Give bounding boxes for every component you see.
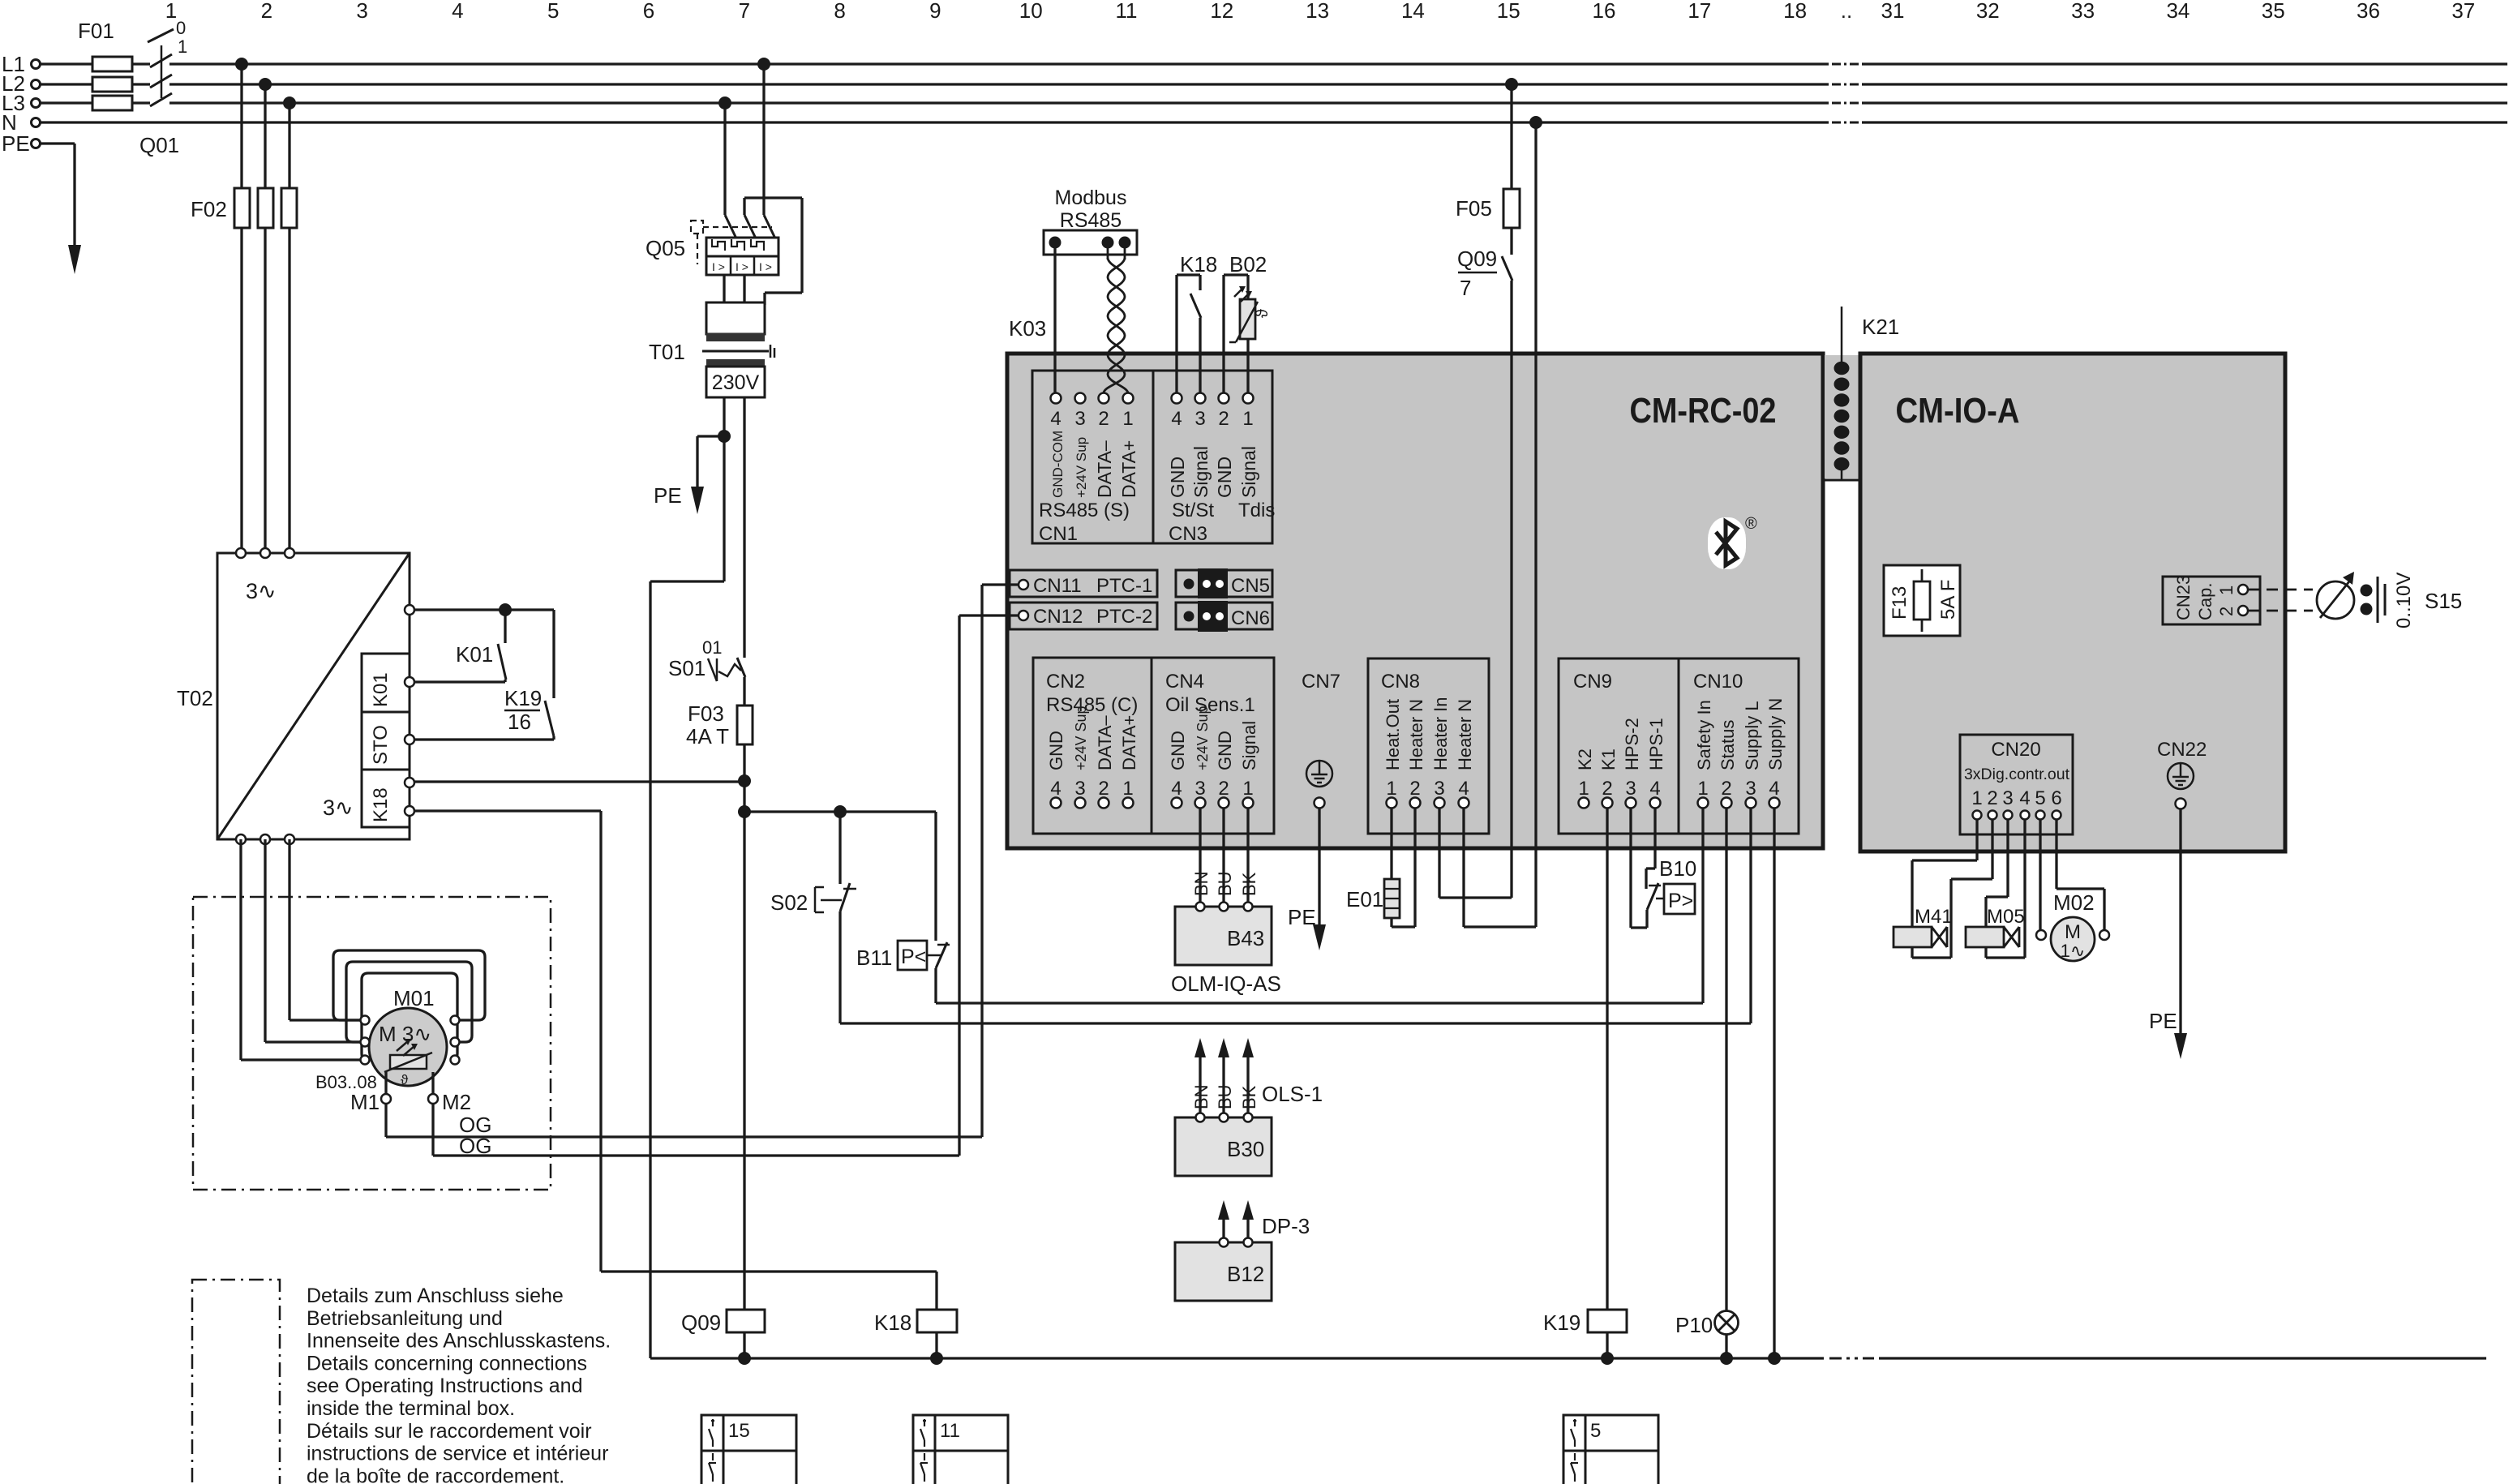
svg-text:K21: K21 xyxy=(1862,315,1899,339)
svg-text:5A F: 5A F xyxy=(1937,580,1959,620)
terminal M1 xyxy=(350,1072,391,1114)
terminal M2 xyxy=(428,1072,471,1114)
node PE tap at T01 xyxy=(718,430,731,443)
svg-text:OLS-1: OLS-1 xyxy=(1262,1082,1323,1106)
svg-text:BK: BK xyxy=(1239,1085,1259,1109)
svg-text:CN1: CN1 xyxy=(1039,523,1078,545)
node L3-F02 junction xyxy=(283,97,296,109)
svg-text:1: 1 xyxy=(2216,585,2237,595)
wire Q05 pole2 bypass loop xyxy=(744,198,802,305)
node control branch A xyxy=(738,805,751,818)
svg-text:B30: B30 xyxy=(1227,1137,1264,1161)
svg-text:Status: Status xyxy=(1718,720,1738,770)
svg-text:5: 5 xyxy=(1590,1420,1601,1442)
wire N to CN8.4 xyxy=(1464,122,1536,927)
svg-text:CN7: CN7 xyxy=(1302,671,1340,693)
svg-text:St/St: St/St xyxy=(1172,500,1214,521)
oil sensor B30 OLS-1 xyxy=(1175,1038,1323,1176)
svg-text:K19: K19 xyxy=(1543,1310,1580,1335)
L3 rail label and terminal xyxy=(2,91,41,115)
svg-text:P<: P< xyxy=(901,946,926,968)
svg-text:de la boîte de raccordement.: de la boîte de raccordement. xyxy=(307,1465,564,1484)
svg-text:PTC-2: PTC-2 xyxy=(1096,606,1152,628)
svg-text:4: 4 xyxy=(1458,778,1469,800)
wire L3 to Q05 pole1 xyxy=(723,103,726,215)
solenoid valve M05 xyxy=(1966,819,2025,958)
svg-text:+24V Sup: +24V Sup xyxy=(1074,437,1089,498)
svg-text:1: 1 xyxy=(1697,778,1708,800)
svg-text:Tdis: Tdis xyxy=(1238,500,1275,521)
svg-text:Détails sur le raccordement vo: Détails sur le raccordement voir xyxy=(307,1420,592,1443)
node SupplyN-bus xyxy=(1768,1352,1781,1365)
svg-text:Safety In: Safety In xyxy=(1694,700,1714,770)
svg-text:2: 2 xyxy=(1098,408,1109,430)
svg-text:K19: K19 xyxy=(504,686,542,710)
switch S02 xyxy=(770,812,856,1023)
svg-text:T01: T01 xyxy=(649,340,685,364)
svg-text:2: 2 xyxy=(1409,778,1420,800)
svg-text:7: 7 xyxy=(1460,276,1471,300)
sensor B02 Tdis (PTC) xyxy=(1224,252,1272,392)
svg-text:0..10V: 0..10V xyxy=(2393,573,2415,628)
svg-text:1: 1 xyxy=(178,36,187,57)
wire PE stub with arrow xyxy=(41,144,81,274)
connector CN2 pins xyxy=(1046,671,1139,808)
contact Q09/7 (breaker aux) xyxy=(1457,247,1512,898)
svg-text:CN2: CN2 xyxy=(1046,671,1085,693)
svg-text:32: 32 xyxy=(1976,0,2000,23)
frequency inverter T02 xyxy=(177,548,414,844)
svg-text:®: ® xyxy=(1745,515,1757,533)
svg-text:37: 37 xyxy=(2451,0,2475,23)
svg-text:4: 4 xyxy=(1769,778,1779,800)
svg-text:OLM-IQ-AS: OLM-IQ-AS xyxy=(1171,971,1281,996)
jumper CN5 xyxy=(1176,568,1272,598)
svg-text:M41: M41 xyxy=(1915,906,1953,928)
svg-text:7: 7 xyxy=(739,0,750,23)
fuse F01 (3-pole) xyxy=(78,19,132,110)
svg-text:S15: S15 xyxy=(2425,589,2462,613)
svg-text:12: 12 xyxy=(1210,0,1233,23)
node K18-bus xyxy=(930,1352,943,1365)
wire T02 to motor phases xyxy=(241,839,361,1060)
svg-text:M01: M01 xyxy=(393,986,435,1010)
svg-text:instructions de service et int: instructions de service et intérieur xyxy=(307,1443,608,1465)
svg-text:I >: I > xyxy=(736,260,748,273)
svg-text:4: 4 xyxy=(452,0,463,23)
svg-text:Cap.: Cap. xyxy=(2195,583,2215,620)
svg-text:DATA–: DATA– xyxy=(1094,440,1115,498)
motor protection breaker Q05 xyxy=(645,215,778,302)
switch Q01 main disconnect xyxy=(139,18,187,157)
connector CN20 3xDig.contr.out xyxy=(1960,735,2073,834)
svg-text:K01: K01 xyxy=(370,672,392,707)
svg-text:1: 1 xyxy=(1971,787,1982,809)
connector CN1 pins xyxy=(1039,393,1139,546)
svg-text:+24V Sup: +24V Sup xyxy=(1194,706,1211,770)
wire control feed down xyxy=(743,781,745,812)
svg-text:B10: B10 xyxy=(1659,856,1696,881)
thermistor B03..08 in motor xyxy=(315,1039,432,1092)
wire L1 to Q05 pole3 xyxy=(762,64,765,215)
svg-text:3: 3 xyxy=(1074,778,1085,800)
svg-text:CN10: CN10 xyxy=(1693,671,1743,693)
svg-text:BU: BU xyxy=(1215,1084,1235,1109)
svg-text:CN8: CN8 xyxy=(1381,671,1420,693)
svg-text:F02: F02 xyxy=(191,197,227,221)
Modbus RS485 connector xyxy=(1044,187,1137,255)
svg-text:B12: B12 xyxy=(1227,1262,1264,1286)
svg-text:18: 18 xyxy=(1783,0,1807,23)
svg-text:CM-IO-A: CM-IO-A xyxy=(1896,391,2020,431)
svg-text:15: 15 xyxy=(728,1420,750,1442)
node L1-Q05 junction xyxy=(757,58,770,71)
svg-text:Signal: Signal xyxy=(1238,446,1259,498)
transformer T01 xyxy=(649,302,774,397)
svg-text:35: 35 xyxy=(2262,0,2285,23)
svg-text:3: 3 xyxy=(1745,778,1756,800)
svg-text:GND: GND xyxy=(1215,731,1235,770)
svg-text:CN23: CN23 xyxy=(2173,575,2194,620)
wire CN10 Supply N to bus xyxy=(1773,808,1775,1358)
svg-text:DATA+: DATA+ xyxy=(1118,440,1139,498)
PE arrow below T01 xyxy=(654,436,724,514)
svg-text:CN12: CN12 xyxy=(1033,606,1083,628)
node N-heater junction xyxy=(1529,116,1542,129)
svg-text:M02: M02 xyxy=(2053,890,2095,915)
fuse F13 5A F xyxy=(1884,565,1960,636)
svg-text:230V: 230V xyxy=(712,371,760,394)
connector CN1/CN3 block xyxy=(1032,371,1272,543)
svg-text:PE: PE xyxy=(2,131,30,156)
svg-text:3: 3 xyxy=(1625,778,1636,800)
wire S02 chain to CN10 Supply L xyxy=(840,808,1751,1023)
contact K01 xyxy=(456,642,506,680)
svg-text:1: 1 xyxy=(1242,778,1253,800)
svg-text:3: 3 xyxy=(1434,778,1444,800)
wire CN22 to PE arrow xyxy=(2149,808,2187,1059)
svg-text:PTC-1: PTC-1 xyxy=(1096,575,1152,597)
svg-text:K03: K03 xyxy=(1009,316,1046,341)
cross-reference Q09 contacts xyxy=(701,1415,796,1484)
svg-text:4: 4 xyxy=(1171,408,1182,430)
svg-text:Q01: Q01 xyxy=(139,133,179,157)
svg-text:3∿: 3∿ xyxy=(246,579,277,603)
svg-text:F03: F03 xyxy=(688,701,724,726)
svg-text:see Operating Instructions and: see Operating Instructions and xyxy=(307,1375,582,1397)
svg-text:4: 4 xyxy=(1050,408,1061,430)
connector CN3 pins xyxy=(1167,393,1275,546)
svg-text:GND: GND xyxy=(1046,731,1066,770)
node S02 branch xyxy=(834,805,847,818)
svg-text:Details zum Anschluss siehe: Details zum Anschluss siehe xyxy=(307,1285,564,1307)
fuse F03 4A T xyxy=(686,677,753,781)
module CM-RC-02 (K03) xyxy=(1009,316,1777,431)
svg-text:8: 8 xyxy=(834,0,845,23)
svg-text:10: 10 xyxy=(1019,0,1043,23)
cross-reference K18 contacts xyxy=(913,1415,1008,1484)
L1 rail label and terminal xyxy=(2,52,41,76)
svg-text:GND-COM: GND-COM xyxy=(1050,431,1066,498)
svg-text:17: 17 xyxy=(1688,0,1711,23)
svg-text:E01: E01 xyxy=(1346,887,1383,911)
wire N rail xyxy=(41,121,2507,123)
wire L3 rail xyxy=(41,101,2507,104)
node P10-bus xyxy=(1720,1352,1733,1365)
svg-text:6: 6 xyxy=(2051,787,2061,809)
svg-text:16: 16 xyxy=(1593,0,1616,23)
coil K18 xyxy=(874,1310,957,1358)
svg-text:BN: BN xyxy=(1191,871,1212,896)
svg-text:ϑ: ϑ xyxy=(1254,309,1272,318)
svg-text:3∿: 3∿ xyxy=(323,796,354,820)
svg-text:..: .. xyxy=(1841,0,1852,23)
svg-text:Q09: Q09 xyxy=(681,1310,721,1335)
svg-text:M1: M1 xyxy=(350,1090,380,1114)
pressure sensor B12 DP-3 xyxy=(1175,1200,1310,1301)
svg-text:K01: K01 xyxy=(456,642,493,667)
svg-text:2: 2 xyxy=(1218,778,1229,800)
svg-text:2: 2 xyxy=(261,0,272,23)
svg-text:DP-3: DP-3 xyxy=(1262,1214,1310,1238)
svg-text:14: 14 xyxy=(1401,0,1425,23)
wire T01 secondary left + PE branch xyxy=(650,397,724,1358)
svg-text:K1: K1 xyxy=(1598,748,1619,770)
setpoint potentiometer S15 0..10V xyxy=(2317,572,2462,628)
wire twisted pair to CN1.2/CN1.1 xyxy=(1104,248,1128,392)
jumper CN6 xyxy=(1176,601,1272,632)
svg-text:GND: GND xyxy=(1168,731,1188,770)
svg-text:31: 31 xyxy=(1881,0,1905,23)
svg-text:3: 3 xyxy=(1074,408,1085,430)
node K01 branch junction xyxy=(499,603,512,616)
pressure switch B11 P< xyxy=(856,941,950,1003)
svg-text:01: 01 xyxy=(702,637,722,658)
motor M01 xyxy=(361,986,460,1086)
svg-text:2: 2 xyxy=(1721,778,1731,800)
heater E01 xyxy=(1346,808,1415,927)
svg-text:CM-RC-02: CM-RC-02 xyxy=(1630,391,1777,431)
svg-text:1: 1 xyxy=(1122,408,1133,430)
PE rail label and terminal xyxy=(2,131,41,156)
fuse F02 (3x) xyxy=(191,188,297,228)
wire OG sensor pair to CN11/CN12 xyxy=(386,585,1019,1158)
node L3-Q05 junction xyxy=(718,97,731,109)
connector CN4 pins xyxy=(1165,671,1259,808)
wire dashed to S15 xyxy=(2248,590,2313,611)
connector CN23 Cap. xyxy=(2163,575,2260,624)
connector CN8 block xyxy=(1368,658,1489,834)
wire L1 rail xyxy=(41,62,2507,65)
connector CN9 pins xyxy=(1573,671,1666,808)
wire to coil Q09 xyxy=(743,812,745,1310)
svg-text:6: 6 xyxy=(643,0,654,23)
svg-text:CN22: CN22 xyxy=(2157,739,2207,761)
svg-text:Q05: Q05 xyxy=(645,236,685,260)
svg-text:Heat.Out: Heat.Out xyxy=(1383,699,1403,770)
svg-text:I >: I > xyxy=(712,260,725,273)
svg-text:M05: M05 xyxy=(1987,906,2025,928)
node L2-F02 junction xyxy=(259,78,272,91)
wire Modbus GND to CN1.4 xyxy=(1053,248,1056,392)
wire T02 K18 upper to F03 node xyxy=(414,780,744,783)
fuse F05 xyxy=(1456,84,1520,255)
column header numbers xyxy=(165,0,2475,23)
Bluetooth logo xyxy=(1708,515,1757,569)
svg-text:15: 15 xyxy=(1497,0,1520,23)
svg-text:PE: PE xyxy=(1288,905,1316,929)
svg-text:CN3: CN3 xyxy=(1169,523,1207,545)
wire safety chain to CN10 Safety In xyxy=(936,808,1703,1003)
svg-text:GND: GND xyxy=(1214,457,1235,498)
svg-text:3: 3 xyxy=(1194,778,1205,800)
svg-text:13: 13 xyxy=(1306,0,1329,23)
svg-text:P>: P> xyxy=(1668,890,1693,912)
svg-text:4A T: 4A T xyxy=(686,724,729,748)
svg-text:K18: K18 xyxy=(1180,252,1217,277)
svg-text:PE: PE xyxy=(654,483,682,508)
svg-text:1: 1 xyxy=(1122,778,1133,800)
svg-text:I >: I > xyxy=(759,260,772,273)
fan motor M02 xyxy=(2036,819,2109,961)
svg-text:Betriebsanleitung und: Betriebsanleitung und xyxy=(307,1307,503,1330)
svg-text:2: 2 xyxy=(1218,408,1229,430)
svg-text:F05: F05 xyxy=(1456,196,1492,221)
svg-text:CN9: CN9 xyxy=(1573,671,1612,693)
svg-text:RS485: RS485 xyxy=(1060,209,1122,232)
svg-text:4: 4 xyxy=(1649,778,1660,800)
svg-text:HPS-2: HPS-2 xyxy=(1622,718,1642,770)
svg-text:Innenseite des Anschlusskasten: Innenseite des Anschlusskastens. xyxy=(307,1330,611,1353)
svg-text:3: 3 xyxy=(356,0,367,23)
svg-text:33: 33 xyxy=(2071,0,2095,23)
svg-text:B11: B11 xyxy=(856,946,892,970)
svg-text:F01: F01 xyxy=(78,19,114,43)
wire T02 K18 lower to coil K18 xyxy=(414,811,937,1310)
module CM-IO-A xyxy=(1896,391,2020,431)
lamp P10 xyxy=(1675,808,1739,1358)
svg-text:BN: BN xyxy=(1191,1084,1212,1109)
svg-text:K2: K2 xyxy=(1575,748,1595,770)
wire F02 drops to T02 xyxy=(242,64,289,548)
svg-text:CN4: CN4 xyxy=(1165,671,1204,693)
svg-text:Modbus: Modbus xyxy=(1055,187,1127,209)
svg-text:1: 1 xyxy=(1578,778,1589,800)
svg-text:5: 5 xyxy=(547,0,559,23)
svg-text:STO: STO xyxy=(370,725,392,765)
switch S01 xyxy=(668,397,745,681)
node L1-F02 junction xyxy=(235,58,248,71)
svg-text:K18: K18 xyxy=(370,787,392,822)
svg-text:HPS-1: HPS-1 xyxy=(1646,718,1666,770)
solenoid valve M41 xyxy=(1894,819,1992,958)
dash-dot boundary motor terminal box xyxy=(193,897,551,1190)
svg-text:Signal: Signal xyxy=(1190,446,1212,498)
svg-text:GND: GND xyxy=(1167,457,1188,498)
svg-text:S02: S02 xyxy=(770,890,808,915)
svg-text:M2: M2 xyxy=(442,1090,471,1114)
svg-text:3: 3 xyxy=(2002,787,2013,809)
svg-text:CN20: CN20 xyxy=(1991,739,2040,761)
wire control bus to B11 xyxy=(744,812,936,941)
svg-text:S01: S01 xyxy=(668,656,706,680)
svg-text:M: M xyxy=(2065,921,2081,943)
connector CN9/CN10 block xyxy=(1559,658,1799,834)
svg-text:Heater N: Heater N xyxy=(1406,699,1426,770)
connector CN22 earth xyxy=(2157,739,2207,809)
motor bridge loops xyxy=(333,950,485,1060)
oil monitor B43 OLM-IQ-AS xyxy=(1171,808,1281,996)
connector CN2/CN4 block xyxy=(1033,658,1274,834)
svg-text:inside the terminal box.: inside the terminal box. xyxy=(307,1397,515,1420)
connector CN7 earth xyxy=(1302,671,1340,808)
N rail label and terminal xyxy=(2,110,41,135)
svg-text:4: 4 xyxy=(1171,778,1182,800)
svg-text:3: 3 xyxy=(1194,408,1205,430)
svg-text:34: 34 xyxy=(2166,0,2189,23)
svg-text:36: 36 xyxy=(2357,0,2380,23)
svg-text:2: 2 xyxy=(2216,607,2237,616)
svg-text:K18: K18 xyxy=(874,1310,911,1335)
note text block xyxy=(307,1285,611,1484)
svg-text:DATA+: DATA+ xyxy=(1119,715,1139,770)
contact K18 (start/stop) xyxy=(1177,252,1217,392)
wire T02 aux to K01/K19 xyxy=(414,610,554,740)
coil K19 xyxy=(1543,808,1627,1358)
svg-text:Supply N: Supply N xyxy=(1765,698,1786,770)
svg-text:4: 4 xyxy=(1050,778,1061,800)
contact K19/16 xyxy=(504,686,554,736)
dash-dot legend box xyxy=(192,1280,280,1484)
svg-text:BU: BU xyxy=(1215,871,1235,896)
connector CN10 pins xyxy=(1693,671,1786,808)
svg-text:PE: PE xyxy=(2149,1009,2177,1033)
svg-text:1: 1 xyxy=(1386,778,1396,800)
wire Q09 to CN8.3 xyxy=(1439,808,1512,898)
svg-text:0: 0 xyxy=(176,18,186,38)
svg-text:+24V Sup: +24V Sup xyxy=(1073,706,1089,770)
svg-text:1: 1 xyxy=(1242,408,1253,430)
svg-text:RS485 (S): RS485 (S) xyxy=(1039,500,1130,521)
wire L2 rail xyxy=(41,83,2507,85)
svg-text:11: 11 xyxy=(940,1420,960,1442)
svg-text:2: 2 xyxy=(1987,787,1997,809)
svg-text:CN6: CN6 xyxy=(1231,607,1270,629)
svg-text:3xDig.contr.out: 3xDig.contr.out xyxy=(1964,766,2070,783)
svg-text:16: 16 xyxy=(508,710,531,734)
node F03 output xyxy=(738,774,751,787)
coil Q09 xyxy=(681,1310,765,1358)
svg-text:CN11: CN11 xyxy=(1033,575,1082,597)
svg-text:9: 9 xyxy=(929,0,941,23)
svg-text:2: 2 xyxy=(1098,778,1109,800)
L2 rail label and terminal xyxy=(2,71,41,96)
wire CN7 to PE xyxy=(1288,808,1326,950)
cross-reference K19 contacts xyxy=(1563,1415,1658,1484)
node Q09-bus xyxy=(738,1352,751,1365)
svg-text:T02: T02 xyxy=(177,686,213,710)
svg-text:11: 11 xyxy=(1116,0,1138,23)
node L2-F05 junction xyxy=(1505,78,1518,91)
svg-text:CN5: CN5 xyxy=(1231,575,1270,597)
svg-text:Details concerning connections: Details concerning connections xyxy=(307,1352,587,1375)
svg-text:Heater N: Heater N xyxy=(1455,699,1475,770)
svg-text:B02: B02 xyxy=(1229,252,1267,277)
svg-text:Supply L: Supply L xyxy=(1742,701,1762,770)
connector CN11 PTC-1 xyxy=(1010,570,1157,597)
svg-text:5: 5 xyxy=(2035,787,2045,809)
svg-text:Heater In: Heater In xyxy=(1430,697,1451,771)
